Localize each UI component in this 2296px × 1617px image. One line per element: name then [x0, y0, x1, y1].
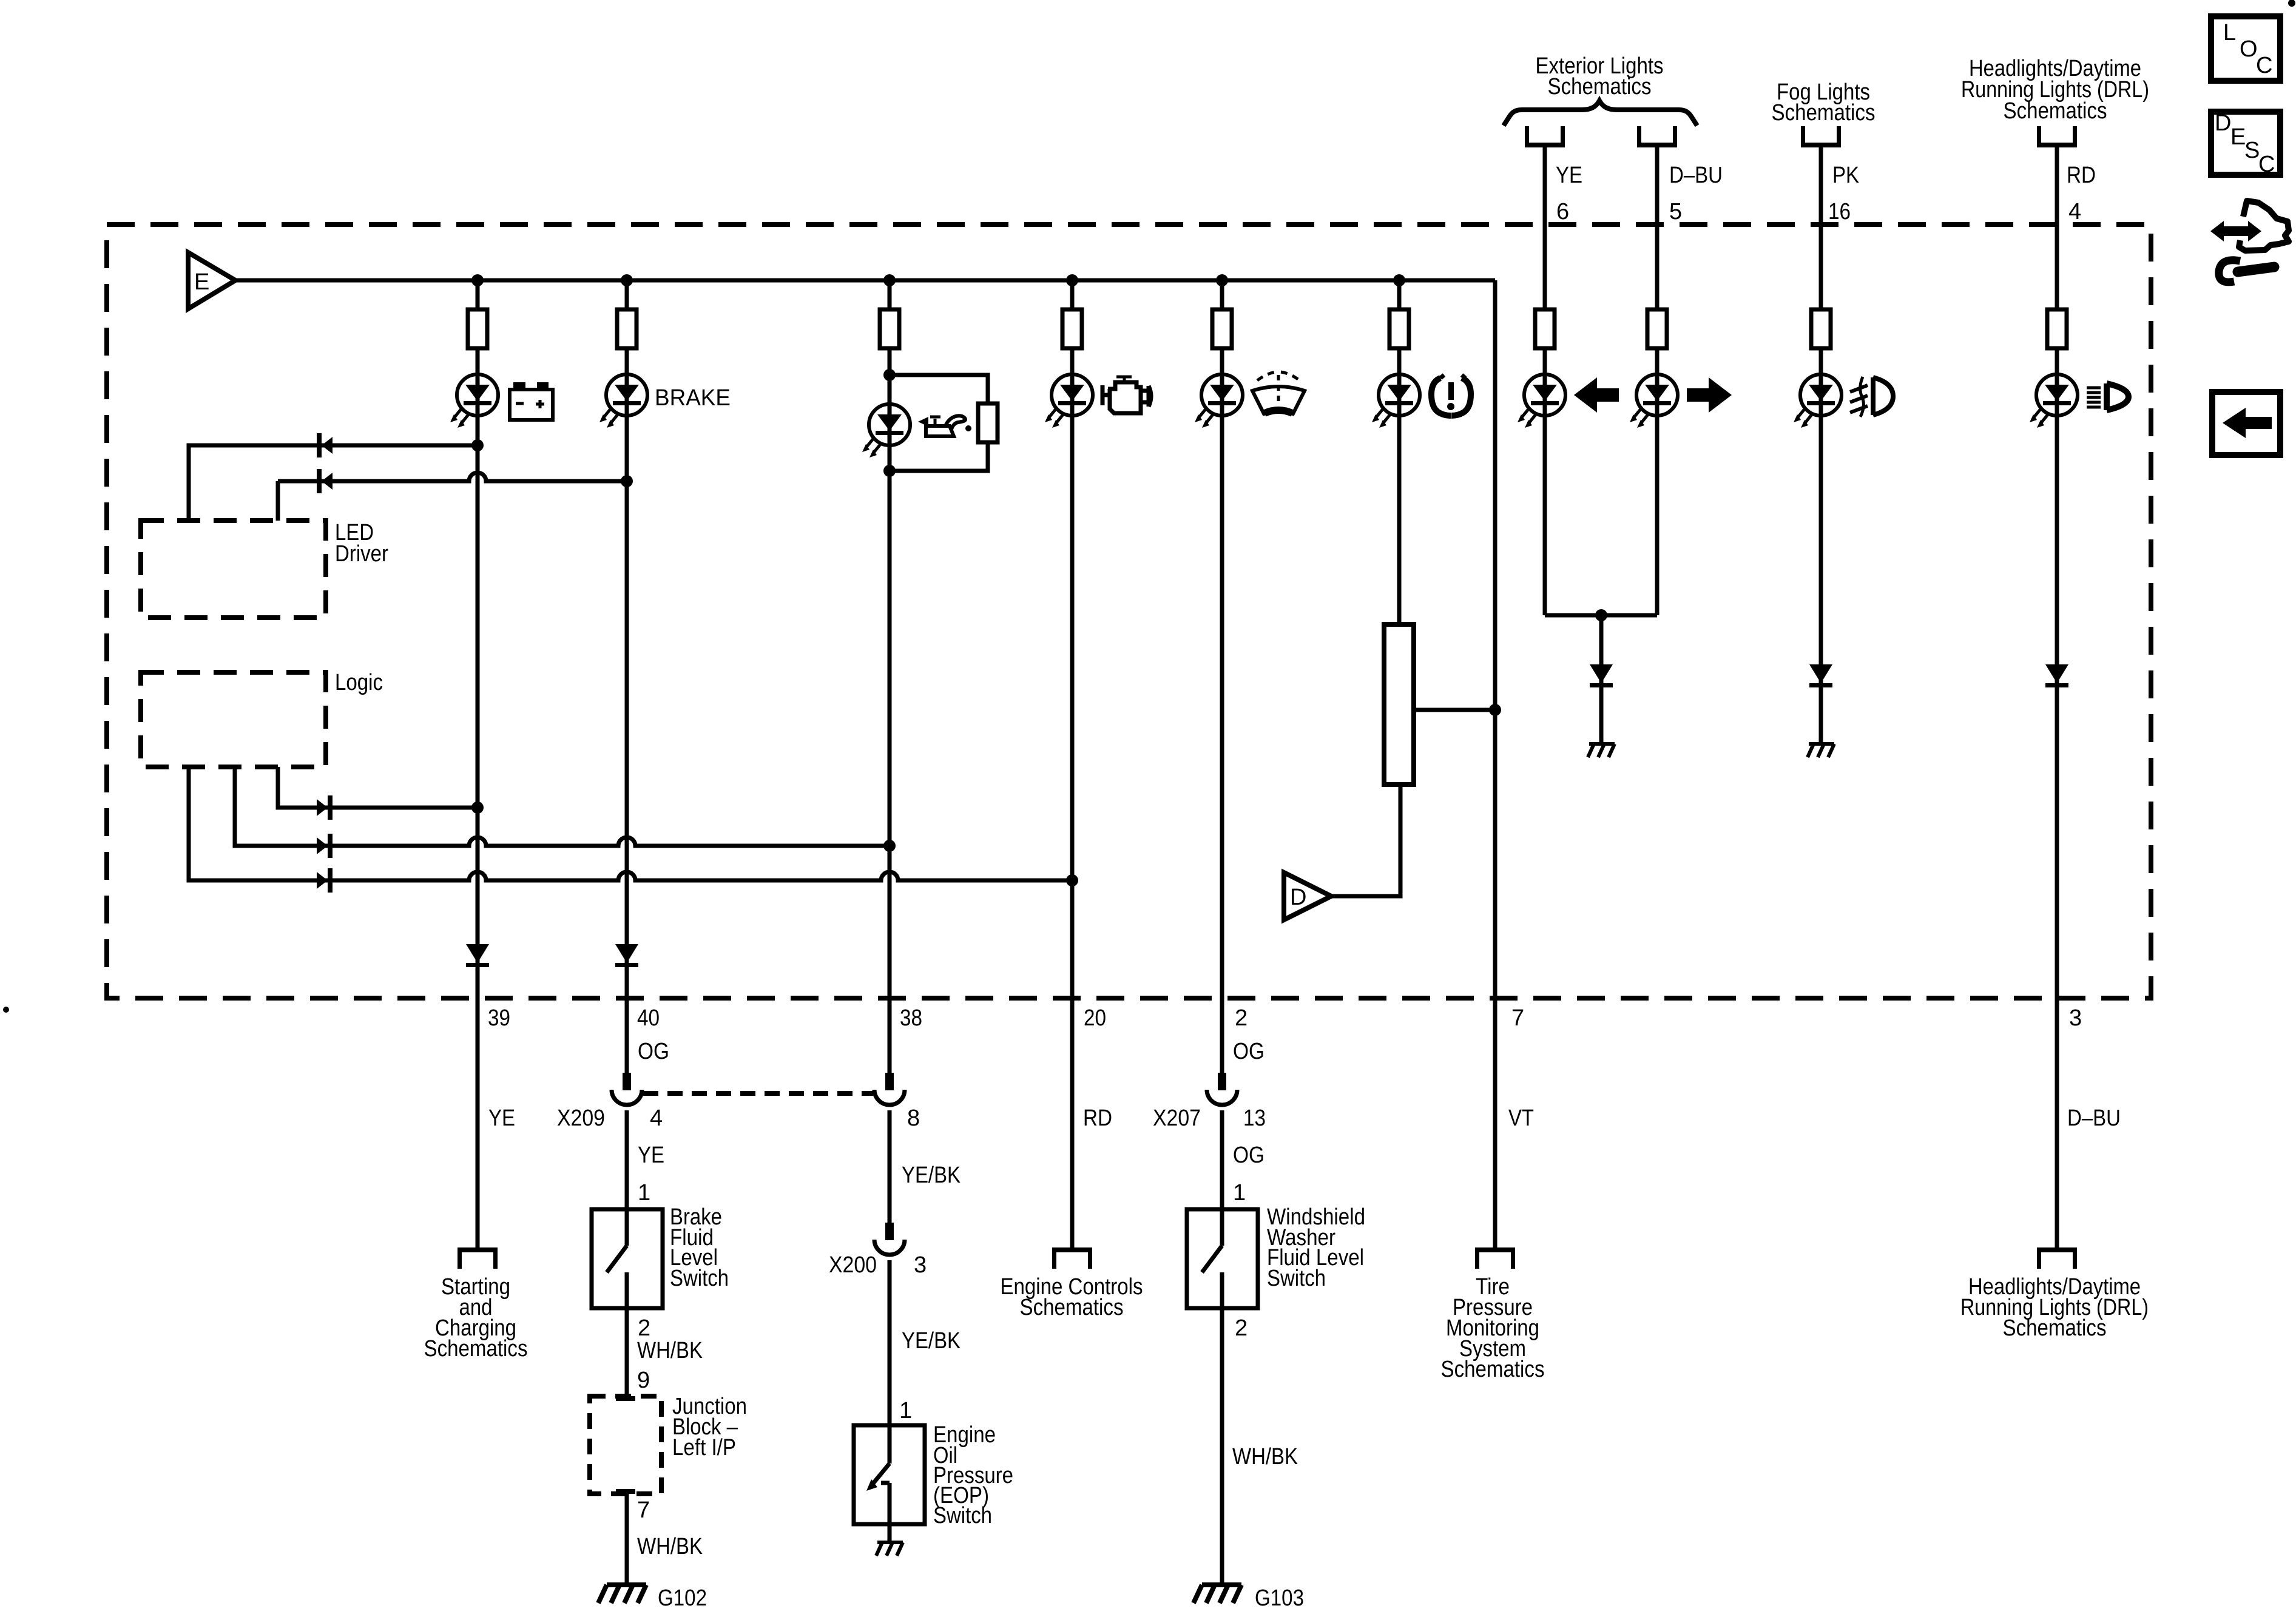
ground fog light [1808, 744, 1834, 757]
wire: oil parallel resistor loop [890, 375, 988, 471]
wire: brake node to LED driver (line 2, hops battery wire) [278, 473, 627, 521]
svg-text:G103: G103 [1255, 1585, 1304, 1611]
label Windshield Washer Fluid Level Switch [1267, 1204, 1365, 1291]
wire: DRL feed RD 4 [2055, 147, 2059, 1247]
junction block left I/P dashed box [590, 1396, 661, 1494]
resistor DRL indicator [2047, 309, 2067, 348]
TPMS low tire icon [1431, 375, 1471, 416]
label Headlights/Daytime Running Lights (DRL) Schematics (bottom) [1960, 1274, 2149, 1341]
svg-text:PK: PK [1832, 163, 1859, 188]
connector to DRL schematics (bottom) [2037, 1247, 2077, 1269]
service wrench icon [2210, 201, 2289, 282]
label Engine Controls Schematics [1001, 1274, 1143, 1320]
diode battery branch output [466, 944, 489, 967]
svg-text:Schematics: Schematics [1020, 1295, 1124, 1320]
svg-text:Schematics: Schematics [2003, 1315, 2107, 1341]
wire: battery node to LED driver (line 1) [189, 445, 478, 521]
svg-text:Driver: Driver [335, 541, 388, 567]
resistor brake branch [617, 309, 636, 348]
svg-text:X209: X209 [557, 1106, 605, 1131]
ground turn signal [1588, 744, 1615, 757]
diode clamp on line 1 [317, 433, 333, 457]
left turn arrow icon [1574, 377, 1619, 413]
windshield washer fluid level switch [1187, 1209, 1258, 1308]
connector to exterior lights schematics (right turn) [1637, 126, 1677, 147]
resistor fog light [1811, 309, 1831, 348]
diode on line B [317, 834, 333, 858]
instrument cluster dashed outline box [107, 224, 2151, 998]
label Fog Lights Schematics [1772, 79, 1876, 126]
wire: turn signal common to ground [1599, 615, 1604, 743]
wire: TPMS indicator branch [1397, 280, 1402, 624]
engine oil pressure switch [854, 1425, 925, 1524]
svg-text:E: E [194, 269, 209, 295]
svg-text:9: 9 [637, 1368, 650, 1393]
DESC reference box [2211, 110, 2280, 177]
wire: main supply bus from E to pin 7 drop [235, 279, 1495, 283]
svg-text:2: 2 [1235, 1005, 1248, 1031]
wire: fog light feed PK 16 [1819, 147, 1823, 743]
node: line 2 at brake wire [621, 475, 633, 487]
connector X209 [612, 1073, 642, 1105]
LED Driver dashed box [141, 521, 326, 618]
resistor engine branch [1062, 309, 1082, 348]
fog light icon [1850, 377, 1893, 417]
brace over exterior lights wires [1504, 101, 1697, 126]
label Brake Fluid Level Switch [670, 1204, 729, 1291]
svg-text:7: 7 [1511, 1005, 1524, 1031]
LED battery indicator [450, 374, 498, 428]
diode on line C [317, 868, 333, 893]
LOC reference box [2211, 16, 2280, 81]
svg-text:Schematics: Schematics [1772, 100, 1876, 126]
svg-text:Switch: Switch [1267, 1266, 1326, 1291]
svg-text:WH/BK: WH/BK [637, 1534, 703, 1559]
node: oil parallel box top [883, 369, 896, 381]
svg-text:2: 2 [638, 1315, 650, 1341]
svg-text:RD: RD [1083, 1106, 1112, 1131]
svg-text:YE/BK: YE/BK [902, 1163, 961, 1188]
svg-text:L: L [2223, 20, 2236, 46]
ground EOP switch [876, 1542, 903, 1556]
wire: engine indicator branch [1070, 280, 1075, 1247]
wire: turn signal common join [1545, 613, 1657, 618]
label Tire Pressure Monitoring System Schematics [1441, 1274, 1545, 1382]
right turn arrow icon [1687, 377, 1732, 413]
resistor battery branch [468, 309, 487, 348]
node: oil parallel box bottom [883, 465, 896, 477]
resistor left turn [1535, 309, 1555, 348]
diode fog light [1809, 664, 1832, 687]
diode turn signal common [1590, 664, 1613, 687]
label LED Driver [335, 520, 388, 567]
LED engine indicator [1045, 374, 1093, 428]
wire: brake switch to junction block WH/BK [625, 1308, 629, 1396]
wire: right turn feed D-BU 5 [1655, 147, 1660, 615]
svg-text:4: 4 [2068, 199, 2081, 224]
connector to fog lights schematics [1801, 126, 1841, 147]
svg-text:13: 13 [1243, 1106, 1266, 1131]
wire: washer switch feed OG [1220, 1110, 1224, 1209]
svg-text:16: 16 [1828, 199, 1851, 224]
wire: oil wire to X200 YE/BK [888, 1110, 892, 1223]
node: line B at oil wire [883, 840, 896, 852]
svg-text:3: 3 [2069, 1005, 2082, 1031]
svg-text:39: 39 [488, 1005, 510, 1031]
node: bus tap washer wire [1216, 274, 1228, 286]
svg-text:OG: OG [1233, 1039, 1264, 1064]
svg-text:YE: YE [638, 1143, 664, 1168]
washer fluid icon [1252, 372, 1305, 414]
node: line C at engine wire [1066, 874, 1078, 886]
LED fog light indicator [1794, 374, 1842, 428]
wire: X200 to EOP switch YE/BK [888, 1260, 892, 1425]
svg-text:2: 2 [1235, 1315, 1248, 1341]
svg-text:S: S [2244, 138, 2260, 163]
label Headlights/Daytime Running Lights (DRL) Schematics (top) [1961, 56, 2149, 124]
LED left turn indicator [1518, 374, 1565, 428]
node: bus tap TPMS wire [1393, 274, 1405, 286]
wire: washer indicator branch (upper) [1220, 280, 1224, 1073]
svg-text:OG: OG [638, 1039, 669, 1064]
svg-text:WH/BK: WH/BK [1232, 1444, 1298, 1470]
svg-text:D–BU: D–BU [1669, 163, 1723, 188]
svg-text:OG: OG [1233, 1143, 1264, 1168]
svg-text:YE: YE [488, 1106, 515, 1131]
diode brake branch output [615, 944, 638, 967]
svg-text:20: 20 [1084, 1005, 1106, 1031]
wire: logic to battery wire (line A) [278, 767, 478, 808]
connector X202 (oil wire inline) [874, 1073, 905, 1105]
diode on line A [317, 795, 333, 820]
connector X200 [874, 1223, 905, 1255]
headlight beam icon [2087, 383, 2129, 410]
resistor oil parallel [978, 403, 998, 442]
svg-text:1: 1 [899, 1398, 912, 1423]
page artifact bottom left [3, 1007, 9, 1013]
LED washer indicator [1195, 374, 1243, 428]
resistor right turn [1647, 309, 1667, 348]
battery icon [510, 382, 553, 420]
wire: D triangle to TPMS block [1331, 785, 1400, 896]
node: turn signal join [1595, 609, 1607, 621]
svg-text:YE/BK: YE/BK [902, 1328, 961, 1354]
resistor TPMS branch [1389, 309, 1409, 348]
node: bus tap engine wire [1066, 274, 1078, 286]
svg-text:Schematics: Schematics [424, 1336, 528, 1362]
svg-text:38: 38 [900, 1005, 922, 1031]
check engine icon [1102, 377, 1151, 413]
connector to exterior lights schematics (left turn) [1525, 126, 1565, 147]
diode clamp on line 2 [317, 469, 333, 493]
node: bus tap battery wire [471, 274, 484, 286]
wire: junction block to ground G102 [625, 1494, 629, 1585]
svg-text:VT: VT [1508, 1106, 1534, 1131]
svg-text:BRAKE: BRAKE [655, 385, 731, 411]
diode DRL branch [2045, 664, 2068, 687]
connector to tire pressure monitoring schematics [1475, 1247, 1515, 1269]
svg-text:3: 3 [914, 1252, 927, 1278]
node: junction on pin 7 line [1489, 704, 1501, 716]
LED brake indicator [599, 374, 647, 428]
label Exterior Lights Schematics [1536, 53, 1664, 100]
svg-text:YE: YE [1556, 163, 1582, 188]
label Junction Block - Left I/P [672, 1394, 747, 1460]
connector X207 [1207, 1073, 1237, 1105]
brake fluid level switch [592, 1209, 663, 1308]
ground G103 [1194, 1585, 1241, 1603]
dashed jumper X209 to X202 [643, 1091, 873, 1096]
ground G102 [598, 1585, 646, 1603]
resistor oil branch [880, 309, 899, 348]
wire: logic to oil wire (line B, hops battery and brake wires) [235, 767, 890, 846]
node: bus tap oil wire [883, 274, 896, 286]
wire: brake indicator branch (upper) [625, 280, 629, 1073]
Logic dashed box [141, 672, 326, 767]
svg-text:Schematics: Schematics [2004, 98, 2107, 124]
node: line A at battery wire [471, 802, 484, 814]
svg-text:C: C [2256, 53, 2272, 78]
connector E triangle [188, 252, 235, 309]
wire: TPMS block to pin 7 line [1414, 708, 1495, 712]
svg-text:D: D [2215, 110, 2231, 136]
svg-text:X200: X200 [829, 1252, 877, 1278]
connector to DRL schematics (top) [2037, 126, 2077, 147]
svg-text:6: 6 [1556, 199, 1569, 224]
svg-text:4: 4 [650, 1106, 663, 1131]
wire: pin 7 vertical line [1493, 280, 1497, 1247]
svg-text:1: 1 [1233, 1180, 1246, 1206]
svg-text:G102: G102 [658, 1585, 707, 1611]
connector to starting and charging schematics [458, 1247, 498, 1269]
svg-text:RD: RD [2067, 163, 2096, 188]
wire: logic to engine wire (line C, hops battery, brake, oil wires) [189, 767, 1072, 880]
svg-text:Logic: Logic [335, 670, 383, 695]
svg-text:8: 8 [907, 1106, 920, 1131]
wire: washer switch to ground G103 [1220, 1308, 1224, 1585]
svg-text:C: C [2258, 152, 2275, 177]
label Engine Oil Pressure (EOP) Switch [933, 1422, 1013, 1528]
node: line 1 at battery wire [471, 439, 484, 451]
TPMS block (pressure sensor) [1384, 624, 1414, 785]
LED oil pressure indicator [862, 404, 910, 457]
wire: oil pressure branch (upper) [888, 280, 892, 1073]
label Starting and Charging Schematics [424, 1274, 528, 1362]
svg-text:40: 40 [637, 1005, 660, 1031]
svg-text:X207: X207 [1153, 1106, 1201, 1131]
svg-text:Left I/P: Left I/P [672, 1435, 736, 1460]
wire: brake switch feed YE [625, 1110, 629, 1209]
node: bus tap brake wire [621, 274, 633, 286]
LED TPMS indicator [1372, 374, 1420, 428]
svg-text:5: 5 [1669, 199, 1682, 224]
back arrow box [2212, 392, 2280, 455]
svg-text:D: D [1290, 885, 1306, 910]
oil can icon [918, 416, 971, 436]
svg-text:WH/BK: WH/BK [637, 1338, 703, 1363]
page artifact top right [2288, 0, 2295, 7]
svg-text:1: 1 [638, 1180, 650, 1206]
svg-text:E: E [2230, 124, 2246, 150]
resistor washer branch [1212, 309, 1232, 348]
connector D triangle [1284, 873, 1331, 920]
svg-text:D–BU: D–BU [2067, 1106, 2121, 1131]
svg-text:Schematics: Schematics [1441, 1357, 1545, 1382]
svg-text:Switch: Switch [933, 1503, 992, 1528]
LED right turn indicator [1630, 374, 1678, 428]
connector to engine controls schematics [1052, 1247, 1092, 1269]
LED high beam indicator [2030, 374, 2078, 428]
wire: EOP switch to ground [888, 1524, 892, 1542]
wire: battery indicator branch [476, 280, 480, 1247]
svg-text:7: 7 [637, 1497, 650, 1523]
wire: left turn feed YE 6 [1543, 147, 1547, 615]
svg-text:Switch: Switch [670, 1266, 729, 1291]
svg-text:O: O [2240, 36, 2258, 62]
